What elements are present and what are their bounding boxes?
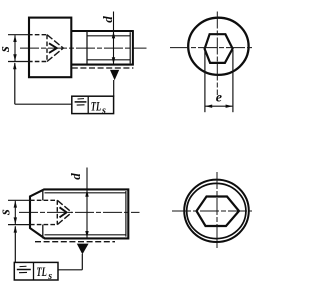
head outline (screw 1) [29, 18, 71, 78]
dimension s (screw 3): upper arrowhead [14, 201, 17, 208]
dimension s (screw 1): bottom extension line [8, 61, 28, 63]
dimension s (screw 1): upper arrowhead [13, 35, 16, 42]
hex socket hidden line, top flat (screw 3) [30, 199, 57, 201]
svg-text:e: e [216, 91, 222, 106]
hex socket hidden line, bottom flat (screw 3) [30, 224, 57, 226]
socket cone hidden line lower (screw 3) [57, 212, 72, 224]
horizontal centerline (view 4) [172, 210, 252, 212]
centerline (screw 3 axis) [19, 211, 140, 213]
dimension s (screw 3): bottom extension line [8, 224, 30, 226]
horizontal centerline (view 2) [170, 47, 252, 49]
dimension d (screw 3): upper arrowhead [85, 190, 88, 197]
svg-text:d: d [68, 173, 83, 180]
thread root bottom (screw 1) [87, 59, 130, 61]
vertical centerline (view 4) [216, 172, 218, 250]
socket point chevron (screw 1) [49, 43, 57, 53]
chamfer edge line lower (screw 3) [42, 225, 44, 239]
head circle (view 2) [188, 18, 248, 75]
svg-text:s: s [101, 106, 106, 117]
dimension d (screw 1): upper arrowhead [112, 31, 115, 38]
leader line vertical from triangle (screw 1) [113, 80, 115, 97]
dimension e: dimension line [205, 105, 232, 107]
dimension e: right extension line [232, 50, 234, 112]
hex socket hidden line, bottom flat (screw 1) [28, 61, 47, 63]
dimension e: left extension line [204, 51, 206, 112]
dimension s (screw 1): top extension line [8, 34, 28, 36]
thread runout line (screw 1) [86, 31, 88, 65]
socket cone hidden line upper (screw 3) [57, 200, 72, 212]
leader arrow at s extension (screw 3) [14, 226, 17, 233]
svg-text:TL: TL [36, 264, 47, 279]
svg-text:s: s [0, 46, 13, 53]
dimension d (screw 3): lower arrowhead [85, 231, 88, 238]
dimension d (screw 1): dimension line [113, 12, 115, 65]
dimension d (screw 3): dimension line [86, 168, 88, 239]
socket cone hidden line lower (screw 1) [47, 48, 63, 61]
hex socket hidden line, socket end (screw 3) [56, 200, 58, 224]
hex socket hidden line, top flat (screw 1) [28, 34, 47, 36]
socket cone hidden line upper (screw 1) [47, 35, 63, 48]
thread root top (screw 3) [45, 192, 127, 194]
chamfer circle (view 4) [187, 183, 246, 238]
callout box (screw 1) [72, 96, 114, 113]
dimension s (screw 1): lower arrowhead [13, 54, 16, 61]
callout box (screw 3) [14, 262, 58, 280]
dimension s (screw 3): lower arrowhead [14, 217, 17, 224]
hex socket (view 4) [197, 197, 240, 227]
vertical centerline (view 2) [216, 12, 218, 96]
shaft top outline (screw 1) [72, 30, 134, 32]
dimension s (screw 1): dimension line [14, 35, 16, 61]
callout box divider (screw 3) [33, 262, 35, 280]
leader arrow at s extension (screw 1) [13, 62, 16, 69]
dimension s (screw 3): top extension line [8, 199, 30, 201]
leader line horizontal to box (screw 1) [15, 103, 72, 105]
callout box divider (screw 1) [87, 96, 89, 113]
svg-text:s: s [47, 271, 52, 282]
body outline (screw 3) [30, 189, 128, 238]
end chamfer line (screw 1) [129, 32, 131, 63]
leader line vertical left (screw 1) [14, 63, 16, 104]
socket point chevron (screw 3) [60, 207, 67, 217]
surface finish triangle (screw 3) [77, 244, 89, 255]
thread boundary dash line (screw 3) [35, 241, 115, 243]
svg-text:s: s [0, 209, 13, 216]
thread boundary dash line (screw 1) [72, 67, 134, 69]
dimension e: left arrowhead [205, 105, 212, 108]
thread root top (screw 1) [87, 35, 130, 37]
dimension s (screw 3): dimension line [14, 201, 16, 224]
thread root bottom (screw 3) [45, 234, 127, 236]
leader line horizontal to box (screw 3) [58, 269, 82, 271]
shaft bottom outline (screw 1) [72, 64, 134, 66]
shaft end face (screw 1) [132, 30, 134, 65]
thread symbol dashes in box (screw 1) [78, 98, 85, 100]
end chamfer line (screw 3) [125, 191, 127, 237]
outer circle (view 4) [184, 180, 249, 242]
hex socket (view 2) [205, 34, 233, 63]
chamfer edge line upper (screw 3) [42, 189, 44, 200]
dimension e: right arrowhead [226, 105, 233, 108]
svg-text:TL: TL [91, 98, 102, 113]
dimension d (screw 1): lower arrowhead [112, 57, 115, 64]
svg-text:d: d [100, 16, 115, 23]
surface finish triangle (screw 1) [110, 70, 119, 80]
leader line vertical from triangle (screw 3) [81, 254, 83, 270]
thread symbol dashes in box (screw 3) [20, 265, 27, 267]
centerline (screw 1 axis) [20, 47, 147, 49]
hex socket hidden line, socket end (screw 1) [46, 35, 48, 62]
leader line vertical left (screw 3) [14, 226, 16, 262]
